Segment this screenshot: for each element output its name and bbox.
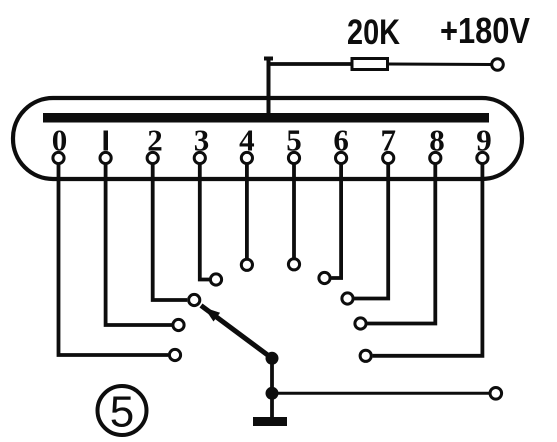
switch contact 2 (189, 294, 200, 305)
switch contact 8 (355, 318, 366, 329)
cathode pin 6 (336, 152, 347, 163)
nixie tube envelope (13, 98, 522, 179)
label 20K (347, 13, 400, 52)
wire: resistor to +180V terminal (389, 63, 491, 67)
cathode pin 2 (147, 152, 158, 163)
switch contact 5 (288, 259, 299, 270)
switch contact 9 (360, 350, 371, 361)
digit 2 (147, 123, 163, 158)
wire: node to ground (270, 393, 274, 418)
wire: output node to terminal (272, 392, 490, 395)
cathode pin 9 (477, 152, 488, 163)
junction: wiper pivot (266, 352, 279, 365)
digit 1 (104, 131, 109, 151)
wire cathode 3 (200, 164, 209, 280)
wire cathode 9 (373, 164, 483, 356)
wire cathode 0 (59, 164, 169, 355)
switch contact 6 (319, 272, 330, 283)
wire cathode 4 (245, 164, 249, 258)
terminal +180V (492, 59, 504, 71)
switch contact 1 (173, 319, 184, 330)
digit 3 (194, 123, 210, 158)
cathode pin 4 (241, 152, 252, 163)
cathode pin 0 (53, 152, 64, 163)
wire: anode vertical (264, 58, 273, 118)
wire cathode 7 (354, 164, 388, 299)
wire: pivot to output node (270, 358, 274, 393)
digit 9 (476, 123, 492, 158)
svg-text:20K: 20K (347, 13, 400, 52)
digit 7 (380, 123, 396, 158)
cathode pin 3 (194, 152, 205, 163)
figure number 5 (98, 386, 147, 437)
switch contact 7 (342, 293, 353, 304)
wire cathode 5 (292, 164, 296, 258)
wire cathode 8 (367, 164, 435, 324)
wire: node to resistor (267, 62, 353, 66)
digit 5 (286, 123, 302, 158)
digit 8 (429, 123, 445, 158)
svg-text:+180V: +180V (440, 10, 530, 51)
junction: output node (266, 387, 279, 400)
cathode pin 7 (383, 152, 394, 163)
terminal: output (490, 388, 502, 400)
resistor R1 (352, 59, 388, 70)
anode bar (43, 113, 489, 123)
wire cathode 1 (106, 164, 172, 325)
switch contact 3 (210, 274, 221, 285)
cathode pin 5 (288, 152, 299, 163)
svg-text:5: 5 (110, 388, 134, 437)
wire cathode 6 (331, 164, 341, 278)
switch wiper S1 (201, 306, 272, 359)
cathode pin 1 (100, 152, 111, 163)
ground (253, 417, 287, 426)
label +180V (440, 10, 530, 51)
digit 6 (333, 123, 349, 158)
digit 4 (239, 123, 255, 158)
digit 0 (52, 123, 68, 158)
switch contact 4 (241, 259, 252, 270)
wire cathode 2 (153, 164, 188, 300)
cathode pin 8 (430, 152, 441, 163)
switch contact 0 (169, 349, 180, 360)
